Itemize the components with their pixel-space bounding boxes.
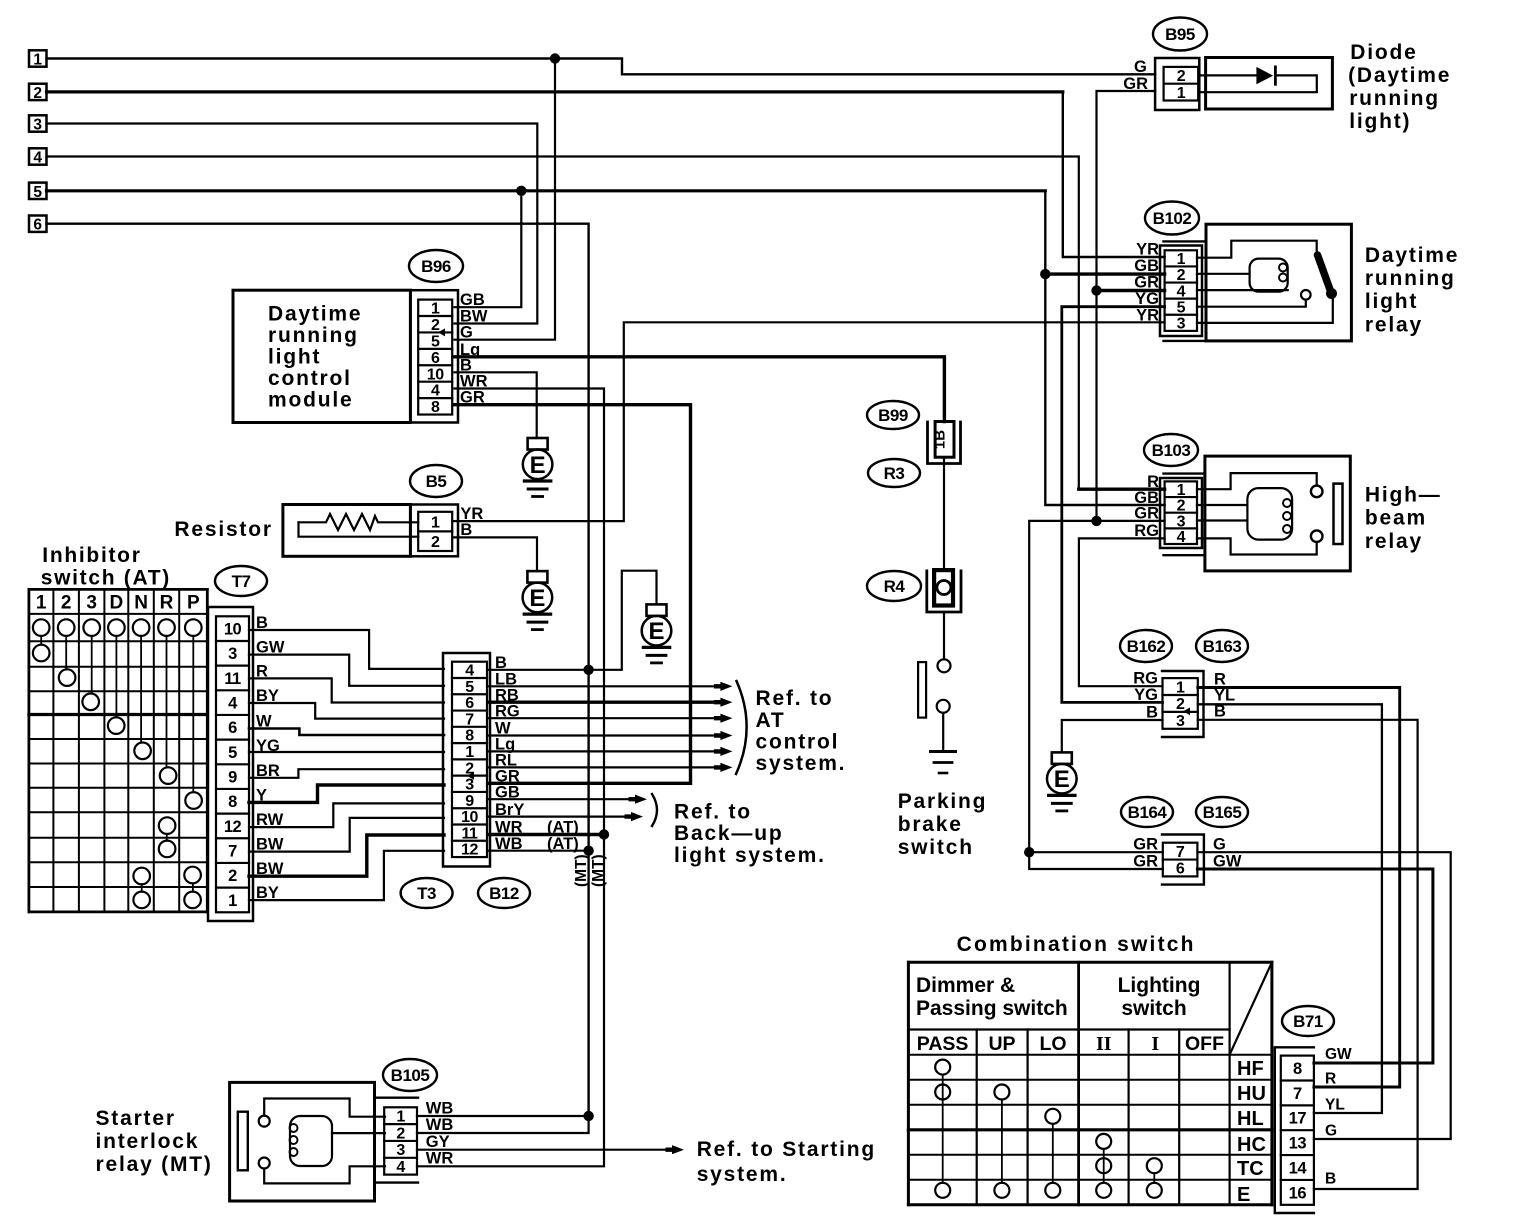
svg-text:2: 2	[33, 85, 42, 102]
svg-text:light: light	[1365, 290, 1418, 313]
svg-text:GB: GB	[460, 291, 485, 309]
svg-text:B96: B96	[421, 257, 451, 276]
svg-text:1: 1	[36, 593, 47, 614]
svg-text:Inhibitor: Inhibitor	[42, 544, 141, 567]
svg-text:switch: switch	[1121, 997, 1186, 1020]
svg-text:(MT): (MT)	[573, 854, 590, 887]
svg-text:light): light)	[1349, 110, 1411, 133]
svg-text:4: 4	[396, 1159, 405, 1176]
svg-text:module: module	[268, 389, 353, 412]
svg-text:RG: RG	[1133, 670, 1158, 688]
svg-text:4: 4	[431, 383, 440, 400]
svg-text:B: B	[1146, 704, 1158, 722]
svg-text:B103: B103	[1152, 441, 1191, 460]
svg-text:B102: B102	[1153, 209, 1192, 228]
svg-text:running: running	[1365, 267, 1456, 290]
svg-text:Ref. to: Ref. to	[756, 687, 834, 710]
svg-text:YG: YG	[1135, 290, 1159, 308]
svg-text:B: B	[1325, 1171, 1336, 1188]
svg-text:8: 8	[465, 728, 474, 745]
svg-text:8: 8	[1293, 1060, 1302, 1078]
svg-text:1: 1	[465, 744, 474, 761]
svg-text:4: 4	[228, 695, 238, 713]
svg-text:YR: YR	[1136, 241, 1159, 259]
svg-text:5: 5	[228, 744, 237, 762]
svg-text:Dimmer &: Dimmer &	[916, 974, 1015, 997]
svg-text:4: 4	[33, 150, 42, 167]
svg-text:RG: RG	[1134, 522, 1159, 540]
svg-text:brake: brake	[898, 813, 963, 836]
svg-text:GR: GR	[1134, 274, 1159, 292]
svg-text:Daytime: Daytime	[268, 303, 362, 326]
svg-text:beam: beam	[1365, 507, 1427, 530]
svg-text:B71: B71	[1293, 1012, 1323, 1031]
svg-text:B163: B163	[1203, 637, 1242, 656]
svg-text:B165: B165	[1203, 803, 1242, 822]
svg-text:OFF: OFF	[1185, 1033, 1224, 1055]
svg-text:6: 6	[33, 217, 42, 234]
svg-text:control: control	[268, 367, 352, 390]
svg-text:E: E	[529, 585, 545, 612]
svg-text:running: running	[1349, 87, 1440, 110]
svg-text:6: 6	[431, 350, 440, 367]
svg-text:B99: B99	[878, 406, 908, 425]
svg-text:Ref. to: Ref. to	[674, 801, 752, 824]
svg-text:12: 12	[224, 818, 242, 836]
svg-text:B95: B95	[1165, 25, 1195, 44]
svg-text:E: E	[648, 618, 664, 645]
svg-text:R: R	[160, 593, 174, 614]
svg-text:4: 4	[1177, 283, 1186, 300]
svg-text:1: 1	[1176, 679, 1185, 696]
svg-text:GR: GR	[1123, 75, 1148, 93]
svg-text:GR: GR	[1133, 853, 1158, 871]
svg-text:WR: WR	[426, 1150, 454, 1168]
svg-text:6: 6	[228, 719, 237, 737]
svg-text:1: 1	[396, 1108, 405, 1125]
svg-text:GR: GR	[1134, 505, 1159, 523]
svg-text:5: 5	[1177, 299, 1186, 316]
svg-text:1: 1	[33, 52, 42, 69]
svg-text:11: 11	[224, 670, 241, 688]
svg-text:10: 10	[461, 809, 478, 826]
svg-text:light system.: light system.	[674, 844, 826, 867]
svg-text:High—: High—	[1365, 484, 1442, 507]
svg-text:system.: system.	[697, 1163, 788, 1186]
svg-text:G: G	[1325, 1123, 1337, 1140]
svg-text:9: 9	[228, 769, 237, 787]
svg-text:R4: R4	[884, 577, 906, 596]
svg-text:HU: HU	[1237, 1083, 1266, 1105]
svg-text:Daytime: Daytime	[1365, 244, 1459, 267]
svg-text:Ref. to Starting: Ref. to Starting	[697, 1138, 876, 1161]
svg-text:T3: T3	[417, 884, 436, 903]
svg-text:5: 5	[33, 184, 42, 201]
svg-text:1: 1	[1177, 251, 1186, 268]
svg-text:Back—up: Back—up	[674, 822, 783, 845]
svg-text:12: 12	[461, 842, 478, 859]
svg-text:3: 3	[1177, 513, 1186, 530]
svg-text:GW: GW	[1213, 853, 1242, 871]
svg-text:N: N	[134, 593, 148, 614]
svg-text:T7: T7	[232, 572, 251, 591]
svg-text:GW: GW	[1325, 1046, 1352, 1063]
svg-text:17: 17	[1289, 1110, 1307, 1128]
svg-text:7: 7	[1293, 1085, 1302, 1103]
svg-text:WB: WB	[426, 1100, 454, 1118]
svg-text:R3: R3	[884, 464, 905, 483]
svg-text:Passing switch: Passing switch	[916, 997, 1068, 1020]
svg-text:B164: B164	[1128, 803, 1168, 822]
svg-text:B162: B162	[1127, 637, 1166, 656]
svg-text:UP: UP	[988, 1033, 1015, 1055]
svg-text:2: 2	[431, 534, 440, 551]
svg-text:4: 4	[1177, 529, 1186, 546]
svg-text:(AT): (AT)	[547, 835, 579, 853]
svg-text:16: 16	[1289, 1184, 1307, 1202]
svg-text:1: 1	[431, 301, 440, 318]
svg-text:GR: GR	[460, 389, 485, 407]
svg-text:3: 3	[33, 117, 42, 134]
svg-text:I: I	[1151, 1033, 1159, 1055]
svg-text:1: 1	[1177, 85, 1186, 102]
svg-text:3: 3	[1177, 316, 1186, 333]
svg-text:1: 1	[228, 892, 237, 910]
svg-text:8: 8	[431, 399, 440, 416]
svg-text:YR: YR	[1136, 307, 1159, 325]
svg-text:7: 7	[228, 843, 237, 861]
svg-text:Combination switch: Combination switch	[957, 933, 1196, 956]
svg-text:2: 2	[1177, 267, 1186, 284]
svg-text:B: B	[460, 521, 472, 539]
svg-text:G: G	[1134, 58, 1147, 76]
svg-text:B105: B105	[391, 1066, 430, 1085]
svg-text:interlock: interlock	[96, 1130, 200, 1153]
svg-text:2: 2	[1176, 696, 1185, 713]
svg-text:5: 5	[465, 679, 474, 696]
svg-text:2: 2	[1177, 68, 1186, 85]
svg-text:switch (AT): switch (AT)	[41, 567, 171, 590]
svg-text:3: 3	[1176, 713, 1185, 730]
svg-text:GB: GB	[1134, 257, 1159, 275]
svg-text:14: 14	[1289, 1159, 1308, 1177]
svg-text:system.: system.	[756, 752, 847, 775]
svg-text:D: D	[110, 593, 124, 614]
svg-text:G: G	[460, 324, 473, 342]
svg-text:WB: WB	[495, 835, 523, 853]
svg-text:2: 2	[396, 1125, 405, 1142]
svg-text:HF: HF	[1237, 1058, 1264, 1080]
svg-text:HL: HL	[1237, 1108, 1264, 1130]
svg-text:3: 3	[228, 645, 237, 663]
svg-text:LO: LO	[1039, 1033, 1066, 1055]
svg-text:B: B	[495, 654, 507, 672]
svg-text:3: 3	[86, 593, 97, 614]
svg-text:relay: relay	[1365, 530, 1423, 553]
svg-text:B: B	[1214, 703, 1226, 721]
svg-text:relay (MT): relay (MT)	[96, 1153, 213, 1176]
svg-text:6: 6	[1176, 861, 1185, 878]
svg-text:5: 5	[431, 333, 440, 350]
svg-text:Lighting: Lighting	[1118, 974, 1201, 997]
svg-text:HC: HC	[1237, 1134, 1266, 1156]
svg-text:1: 1	[431, 514, 440, 531]
svg-text:11: 11	[462, 825, 479, 842]
svg-text:GR: GR	[1133, 836, 1158, 854]
svg-text:II: II	[1096, 1033, 1112, 1055]
svg-text:relay: relay	[1365, 314, 1423, 337]
svg-text:2: 2	[1177, 498, 1186, 515]
svg-text:1B: 1B	[932, 430, 949, 449]
svg-text:10: 10	[427, 366, 444, 383]
svg-text:8: 8	[228, 793, 237, 811]
svg-text:running: running	[268, 324, 359, 347]
svg-text:Starter: Starter	[96, 1107, 176, 1130]
svg-text:GY: GY	[426, 1133, 450, 1151]
svg-text:2: 2	[228, 867, 237, 885]
svg-text:4: 4	[465, 663, 474, 680]
svg-text:2: 2	[61, 593, 72, 614]
svg-text:YL: YL	[1325, 1097, 1345, 1114]
svg-text:TC: TC	[1237, 1158, 1264, 1180]
svg-text:(Daytime: (Daytime	[1348, 64, 1451, 87]
svg-text:B5: B5	[426, 472, 447, 491]
svg-text:Parking: Parking	[898, 790, 988, 813]
svg-text:PASS: PASS	[917, 1033, 969, 1055]
svg-text:2: 2	[431, 317, 440, 334]
svg-text:light: light	[268, 346, 321, 369]
svg-text:Diode: Diode	[1350, 41, 1417, 64]
svg-text:10: 10	[224, 621, 242, 639]
svg-text:3: 3	[465, 777, 474, 794]
svg-text:AT: AT	[756, 709, 786, 732]
svg-text:E: E	[1054, 766, 1070, 793]
svg-text:13: 13	[1289, 1135, 1307, 1153]
svg-text:control: control	[756, 731, 840, 754]
svg-text:E: E	[1237, 1184, 1250, 1206]
svg-text:P: P	[187, 593, 200, 614]
svg-text:G: G	[1213, 836, 1226, 854]
svg-text:7: 7	[465, 711, 474, 728]
svg-text:6: 6	[465, 695, 474, 712]
svg-text:9: 9	[465, 793, 474, 810]
svg-text:B12: B12	[489, 884, 519, 903]
svg-text:E: E	[530, 452, 546, 479]
svg-text:1: 1	[1177, 482, 1186, 499]
svg-text:(MT): (MT)	[590, 854, 607, 887]
svg-text:WB: WB	[426, 1116, 454, 1134]
svg-text:YG: YG	[1134, 686, 1158, 704]
svg-text:7: 7	[1176, 844, 1185, 861]
svg-text:switch: switch	[898, 836, 974, 859]
svg-text:Resistor: Resistor	[174, 518, 272, 541]
svg-text:3: 3	[396, 1142, 405, 1159]
svg-text:R: R	[1325, 1071, 1336, 1088]
